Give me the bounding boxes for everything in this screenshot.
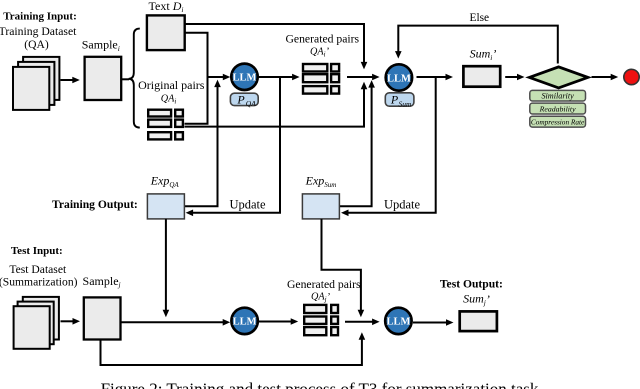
svg-text:Text Di: Text Di (149, 0, 184, 14)
wire Sum_i' to diamond arrow (505, 76, 518, 78)
svg-text:QA: QA (246, 99, 256, 108)
wire stack to Sample_i arrow (61, 79, 74, 81)
svg-text:P: P (236, 93, 245, 107)
svg-text:Training Output:: Training Output: (52, 198, 138, 211)
svg-text:Generated pairs: Generated pairs (287, 278, 361, 291)
svg-text:P: P (390, 93, 399, 107)
training dataset stack middle sheet (18, 62, 54, 105)
box Sum_j' (460, 311, 497, 331)
wire Exp_Sum down and right arrow to test flow (322, 219, 361, 310)
box Text D_i (147, 15, 185, 50)
wire generated pairs to LLM Sum arrow (347, 76, 373, 78)
original pairs bars row3 (148, 132, 171, 139)
svg-text:Samplej: Samplej (83, 274, 121, 289)
training dataset stack back sheet (23, 57, 59, 100)
training dataset stack front sheet (13, 67, 49, 110)
wire Update branch down to Exp_QA (192, 77, 280, 213)
wire diamond to red terminal arrow (592, 76, 612, 78)
wire Sample_j bypass bottom line up into second test arrow (101, 340, 362, 366)
box Sample_i (85, 57, 122, 100)
experience box Exp_Sum (302, 194, 339, 219)
LLM circle Sum (386, 64, 412, 90)
svg-text:Test Output:: Test Output: (440, 278, 503, 291)
generated pairs bars row3 (303, 86, 327, 94)
svg-text:Sumj’: Sumj’ (463, 292, 490, 307)
svg-text:Similarity: Similarity (541, 91, 574, 100)
generated pairs bars row2 (303, 74, 327, 82)
svg-text:Test Dataset: Test Dataset (9, 263, 67, 276)
test dataset stack front sheet (14, 306, 50, 349)
wire test stack to Sample_j arrow (61, 320, 74, 322)
box Sum_i' (463, 66, 500, 87)
wire Update branch down to Exp_Sum (348, 77, 436, 213)
svg-text:LLM: LLM (386, 317, 410, 328)
wire Exp_QA down arrow to test flow (165, 219, 167, 310)
wire Sample_j to test LLM arrow (121, 321, 224, 323)
svg-text:(QA): (QA) (24, 38, 49, 51)
test dataset stack back sheet (23, 297, 59, 340)
brace left curly (129, 29, 140, 128)
svg-text:Samplei: Samplei (82, 38, 120, 53)
generated pairs bars row1 (303, 64, 327, 72)
wire Exp_QA feedback up into LLM QA input (184, 87, 217, 206)
wire LLM Sum output arrow (417, 76, 447, 78)
wire test generated pairs to LLM2 arrow (345, 321, 373, 323)
svg-text:Training Input:: Training Input: (3, 11, 76, 23)
LLM circle QA (231, 64, 257, 90)
LLM circle test 2 (385, 308, 411, 334)
test generated pairs bars row1 (304, 305, 326, 313)
box Sample_j (84, 297, 121, 339)
svg-text:(Summarization): (Summarization) (0, 276, 78, 289)
criteria box Compression Rate (530, 116, 586, 127)
wire Else loop from diamond top to LLM Sum top (398, 26, 558, 64)
wire input arrow into LLM QA (208, 76, 224, 78)
wire Text D_i top line to LLM Sum junction, down arrow (185, 24, 364, 62)
wire LLM QA output arrow to generated pairs (259, 76, 294, 78)
criteria box Readability (530, 103, 586, 114)
svg-text:LLM: LLM (233, 317, 257, 328)
original pairs bars row2 (148, 120, 171, 127)
wire test LLM2 to Sum_j' arrow (413, 322, 447, 324)
prompt box P_QA (230, 93, 258, 105)
svg-text:QAi’: QAi’ (310, 46, 330, 58)
svg-text:Else: Else (469, 12, 489, 24)
svg-text:QAi: QAi (161, 93, 177, 105)
svg-text:Compression Rate: Compression Rate (531, 117, 585, 126)
wire Sample_i to brace (121, 78, 129, 80)
test dataset stack middle sheet (18, 302, 54, 345)
test generated pairs bars row2 (304, 317, 326, 324)
svg-text:Update: Update (229, 198, 266, 212)
experience box Exp_QA (147, 194, 184, 219)
svg-text:Generated pairs: Generated pairs (285, 33, 359, 46)
svg-text:Sumi’: Sumi’ (470, 47, 497, 62)
svg-text:Figure 2: Training and test pr: Figure 2: Training and test process of T… (101, 380, 539, 389)
test generated pairs bars row3 (304, 327, 326, 335)
prompt box P_Sum (385, 93, 414, 106)
original pairs bars row1 (148, 110, 171, 117)
svg-text:LLM: LLM (233, 73, 257, 84)
criteria box Similarity (530, 90, 586, 101)
svg-text:Test Input:: Test Input: (11, 245, 63, 257)
svg-text:Update: Update (384, 198, 421, 212)
wire test LLM1 to generated pairs arrow (259, 321, 292, 323)
svg-text:Original pairs: Original pairs (138, 78, 205, 92)
LLM circle test 1 (231, 308, 257, 334)
decision diamond (529, 67, 588, 88)
terminal red circle (624, 69, 639, 84)
wire original pairs long line up into LLM Sum input (185, 89, 365, 127)
wire Exp_Sum feedback up into LLM Sum input (339, 88, 371, 207)
svg-text:QAj’: QAj’ (311, 292, 331, 304)
svg-text:Readability: Readability (539, 104, 576, 113)
svg-text:Sum: Sum (399, 99, 413, 108)
svg-text:Training Dataset: Training Dataset (0, 25, 77, 38)
svg-text:LLM: LLM (387, 73, 411, 84)
wire Text D_i second line down to original pairs (185, 33, 208, 124)
